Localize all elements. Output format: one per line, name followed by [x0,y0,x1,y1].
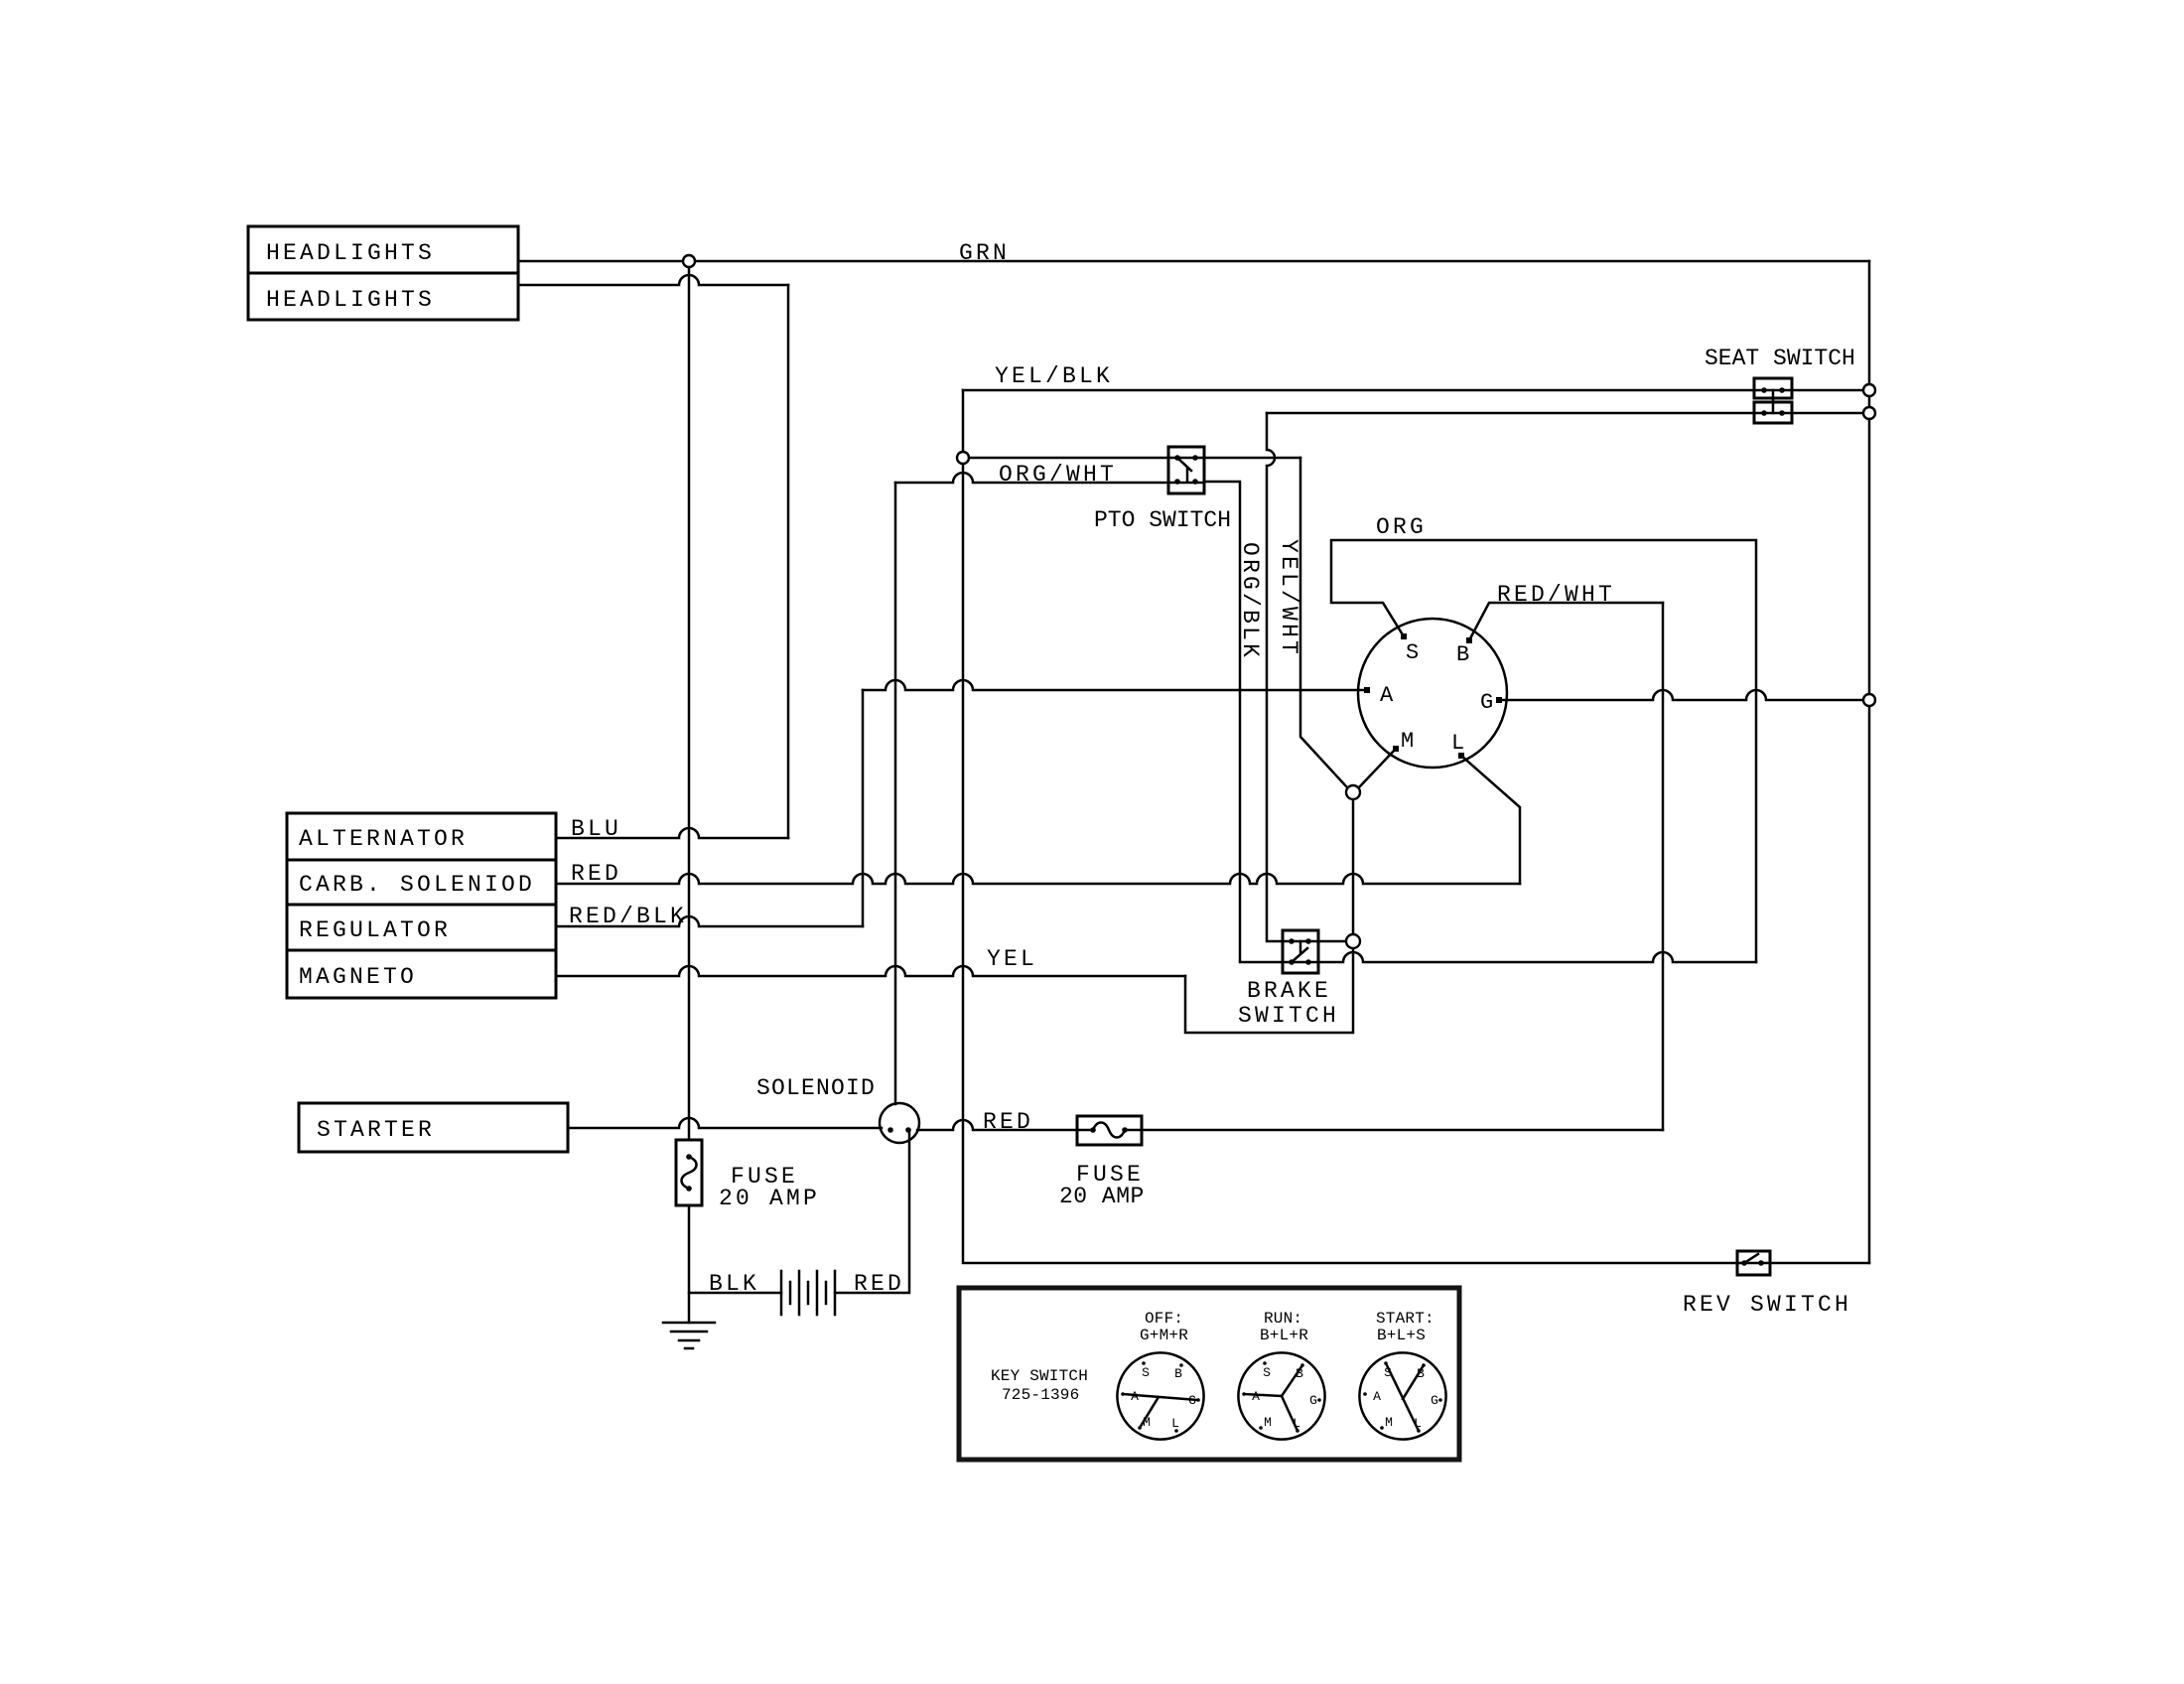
brake switch box [1283,930,1318,973]
svg-text:BLK: BLK [709,1271,759,1297]
svg-text:20 AMP: 20 AMP [1059,1184,1145,1209]
svg-text:REV SWITCH: REV SWITCH [1683,1292,1851,1318]
svg-text:G: G [1480,690,1493,715]
wire RED battery positive riser [835,1131,909,1293]
component box HEADLIGHTS 1 [248,226,518,273]
node connector on YEL/BLK bus [957,452,969,464]
svg-text:M: M [1401,729,1414,754]
svg-text:20 AMP: 20 AMP [719,1186,820,1211]
wire BLU from ALTERNATOR [556,828,788,838]
wire RED from solenoid to fuse F2 [917,1120,1093,1130]
svg-text:BRAKE: BRAKE [1247,978,1331,1004]
wire GRN right bus vertical down to REV switch [1868,261,1871,1263]
node connector seat row1 [1863,384,1875,396]
svg-text:G: G [1431,1393,1438,1408]
svg-text:GRN: GRN [959,240,1010,266]
svg-text:MAGNETO: MAGNETO [299,964,417,990]
svg-text:S: S [1142,1365,1150,1380]
wire RED/WHT from key switch B [1469,603,1663,640]
seat switch middle link [1772,390,1775,413]
svg-text:REGULATOR: REGULATOR [299,917,451,943]
svg-text:A: A [1373,1389,1381,1404]
svg-text:B+L+R: B+L+R [1260,1327,1308,1344]
svg-text:START:: START: [1376,1310,1434,1328]
wire YEL/BLK horizontal (seat switch row 1) [963,389,1863,392]
svg-text:KEY SWITCH: KEY SWITCH [991,1367,1088,1385]
wire ORG/WHT riser to solenoid top [894,483,897,1104]
svg-text:ORG/BLK: ORG/BLK [1237,542,1263,660]
node connector GRN junction at headlights [683,255,695,267]
svg-text:A: A [1252,1389,1260,1404]
svg-text:ORG: ORG [1376,514,1427,540]
wire RED/WHT vertical riser [1662,603,1665,1130]
wire RED/BLK from REGULATOR [556,916,863,926]
svg-text:RED/WHT: RED/WHT [1497,582,1615,608]
wire ORG/WHT drop x=1310 to M junction [1300,458,1347,787]
wire ORG from key switch S [1331,540,1756,962]
wire HEADLIGHTS 2 to BLU riser [518,275,788,285]
fuse F2 box [1077,1116,1142,1145]
component box REGULATOR [287,905,556,950]
svg-text:B: B [1456,642,1469,667]
node connector G row on right bus [1863,694,1875,706]
battery BT1 plates [781,1271,835,1315]
brake switch lever [1292,948,1307,962]
svg-text:L: L [1451,731,1464,756]
svg-text:SEAT SWITCH: SEAT SWITCH [1705,346,1855,371]
svg-text:ORG/WHT: ORG/WHT [999,462,1117,488]
svg-text:A: A [1380,683,1394,708]
node connector seat row2 [1863,407,1875,419]
wire RED/BLK riser to A row [862,690,865,926]
PTO switch contacts [1174,455,1180,461]
node junction M/ORG-WHT [1346,785,1360,799]
seat switch box top [1754,378,1792,398]
svg-text:HEADLIGHTS: HEADLIGHTS [266,240,435,266]
PTO switch box [1168,447,1204,493]
fuse F2 element [1093,1123,1125,1138]
wire G row to right bus [1501,690,1863,700]
component box MAGNETO [287,950,556,998]
wire seat switch row 2 from YEL/WHT riser [1267,412,1863,415]
wire x970 bus down to REV switch [963,464,1869,1263]
svg-text:A: A [1131,1389,1139,1404]
svg-text:RED: RED [983,1109,1033,1135]
wire GRN horizontal from HEADLIGHTS 1 to right bus [518,260,1869,263]
svg-text:G+M+R: G+M+R [1140,1327,1188,1344]
wire M junction vertical between nodes [1352,799,1355,934]
wire from PTO top right to ORG/WHT drop [1204,457,1300,460]
svg-text:RUN:: RUN: [1264,1310,1302,1328]
wire YEL/BLK riser to connector node [962,390,965,452]
wire RED from CARB. SOLENIOD to L riser [556,874,1520,884]
svg-text:S: S [1263,1365,1271,1380]
REV switch contacts [1741,1260,1747,1266]
fuse F1 box [676,1140,702,1205]
solenoid contact dots [887,1127,893,1133]
svg-text:B: B [1174,1366,1182,1381]
svg-text:L: L [1171,1416,1179,1431]
wire YEL from MAGNETO [556,966,1185,976]
REV switch lever [1744,1254,1758,1263]
svg-text:PTO SWITCH: PTO SWITCH [1094,507,1231,533]
PTO switch lever [1177,458,1191,471]
wire A-terminal row [863,680,1365,690]
svg-text:B+L+S: B+L+S [1377,1327,1426,1344]
wire ORG/WHT tap from node to PTO switch top [969,457,1204,460]
key switch terminal dots [1401,633,1407,639]
svg-text:RED/BLK: RED/BLK [569,904,687,929]
wire brake top right to M junction node [1308,940,1346,943]
wire below fuse F1 to ground and battery [688,1205,691,1323]
fuse F1 element [682,1157,697,1189]
brake switch contacts [1289,938,1295,944]
key switch KS1 circle [1358,619,1507,768]
svg-text:STARTER: STARTER [317,1117,435,1143]
component box STARTER [299,1103,568,1152]
component box ALTERNATOR [287,813,556,860]
svg-text:ALTERNATOR: ALTERNATOR [299,826,468,852]
legend key switch diagram START [1359,1352,1445,1439]
svg-text:YEL: YEL [987,946,1037,972]
svg-text:G: G [1309,1393,1317,1408]
svg-text:BLU: BLU [571,816,621,842]
wire ORG/BLK from PTO bottom right [1204,482,1308,962]
wire RED from fuse F2 to RED/WHT riser [1125,1129,1663,1132]
REV switch box [1737,1251,1770,1275]
wire YEL/WHT riser x=1276 to brake switch [1267,413,1308,941]
component box CARB. SOLENIOD [287,860,556,905]
seat switch box bottom [1754,402,1792,423]
svg-text:M: M [1385,1415,1393,1430]
svg-text:OFF:: OFF: [1145,1310,1183,1328]
wire BLU riser vertical [787,285,790,838]
node junction M/YEL [1346,934,1360,948]
solenoid SOL1 circle [880,1103,919,1143]
wire STARTER to solenoid [568,1118,882,1128]
wire key switch M diagonal to junction [1359,749,1396,787]
legend box KEY SWITCH 725-1396 [959,1288,1459,1460]
svg-text:SOLENOID: SOLENOID [756,1075,876,1101]
svg-text:HEADLIGHTS: HEADLIGHTS [266,287,435,313]
wire GRN junction drop x=694 [688,267,691,1140]
wire BLK battery negative [689,1292,781,1295]
svg-text:YEL/WHT: YEL/WHT [1276,539,1301,657]
legend key switch diagram RUN [1238,1352,1324,1439]
svg-text:CARB. SOLENIOD: CARB. SOLENIOD [299,872,535,898]
seat switch contacts [1761,387,1767,393]
legend key switch diagram OFF [1117,1352,1203,1439]
wire brake bottom right to ORG drop [1308,952,1756,962]
svg-text:M: M [1264,1415,1272,1430]
svg-text:S: S [1406,640,1419,665]
svg-text:RED: RED [571,861,621,887]
component box HEADLIGHTS 2 [248,273,518,320]
wire YEL elbow to M-net junction [1185,948,1353,1033]
wire ORG/WHT lower horizontal to PTO switch [895,473,1204,483]
wire key switch L diagonal to riser [1461,756,1520,884]
svg-text:SWITCH: SWITCH [1238,1003,1339,1029]
ground symbol GND [663,1323,715,1348]
svg-text:725-1396: 725-1396 [1002,1386,1079,1404]
svg-text:YEL/BLK: YEL/BLK [995,363,1113,389]
